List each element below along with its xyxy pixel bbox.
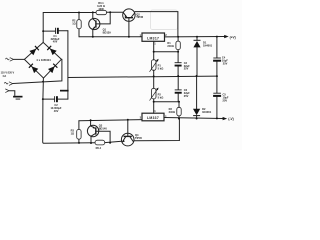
transistor Q4 TIP35 (pass transistor in bottom rail)	[121, 120, 134, 146]
C3 value label	[184, 61, 190, 71]
wire: mid 0V rail	[68, 76, 217, 77]
svg-text:10W: 10W	[98, 7, 104, 11]
op-amp/regulator U1 LM317	[142, 33, 165, 41]
D2 value label	[202, 107, 212, 114]
wire: LM317 ADJ line down to P1 and adj junction wire	[154, 41, 178, 76]
capacitor C6 22uF (adj bypass, bottom)	[175, 76, 182, 102]
op-amp/regulator U2 LM337	[142, 113, 164, 121]
svg-text:5 kΩ: 5 kΩ	[158, 95, 164, 99]
R0.1 value label	[97, 1, 105, 11]
svg-text:TIP36: TIP36	[136, 15, 143, 19]
capacitor C1 2200uF 40V (+ filter)	[43, 28, 68, 34]
svg-text:4 x 1N5404: 4 x 1N5404	[36, 58, 51, 62]
svg-text:40V: 40V	[54, 109, 59, 113]
Q2 reference label	[136, 12, 143, 19]
svg-text:240Ω: 240Ω	[169, 110, 175, 114]
diode D2 1N4001 (across -V output)	[193, 76, 200, 119]
faint scan bleed-through box (decorative)	[151, 10, 178, 30]
svg-text:10µF: 10µF	[222, 58, 228, 62]
wire: -V output line from LM337 pin 2 to output arrow	[164, 118, 223, 119]
transistor Q2 TIP36 (pass transistor in top rail)	[123, 9, 135, 37]
svg-text:CA: CA	[3, 75, 7, 78]
svg-text:LM317: LM317	[147, 36, 159, 40]
capacitor C4 10uF 25V (+ output cap)	[213, 37, 221, 77]
svg-text:25V: 25V	[184, 94, 189, 98]
node: AC input terminal 2	[4, 59, 62, 85]
bridge diode upper-left	[29, 45, 39, 55]
svg-text:(-V): (-V)	[228, 117, 233, 121]
earth ground symbol	[13, 96, 22, 100]
C5 value label	[223, 93, 229, 103]
mains voltage label	[1, 72, 15, 78]
C1 value label	[51, 34, 60, 44]
R3 value label	[71, 128, 75, 135]
wire: +V output line from LM317 pin 2 to output arrow	[165, 36, 225, 38]
P2 value label	[158, 92, 164, 99]
node: earth input terminal	[6, 89, 15, 96]
D1 value label	[203, 41, 213, 48]
C4 value label	[222, 55, 228, 65]
bridge diode upper-right	[47, 45, 57, 55]
junction dots adj node top	[153, 51, 179, 53]
junction dots 0V rail	[153, 75, 218, 78]
svg-text:25V: 25V	[223, 62, 228, 66]
transistor Q1 BD139	[89, 12, 110, 37]
transistor Q3 BD140	[87, 120, 110, 143]
resistor R4 240 ohm (bottom)	[177, 102, 181, 119]
diode D1 1N4001 (across +V output)	[193, 37, 200, 76]
svg-text:LM337: LM337	[147, 116, 159, 120]
Q1 reference label	[103, 28, 112, 35]
svg-text:5 kΩ: 5 kΩ	[158, 67, 164, 71]
wire: bottom negative rail segments	[105, 119, 180, 143]
node: +V output arrow and label	[224, 35, 236, 40]
C6 value label	[184, 88, 190, 98]
svg-text:R0.4: R0.4	[96, 146, 102, 150]
svg-text:1Ω: 1Ω	[71, 131, 75, 135]
bridge diode lower-left	[28, 63, 38, 73]
bridge rectifier B1 diamond	[24, 42, 61, 78]
wire: 0V column from C1 down to C2	[67, 31, 69, 99]
svg-text:25V: 25V	[223, 99, 228, 103]
potentiometer P2 5k (adjust, vertical)	[150, 88, 159, 101]
R4 value label	[169, 107, 175, 114]
resistor R2 1 ohm (vertical, rail to LM317 input wire)	[77, 13, 81, 37]
resistor R0.1 0.22ohm 10W (in top rail)	[96, 10, 107, 14]
svg-text:40V: 40V	[53, 40, 58, 44]
junction dots adj node bottom	[153, 101, 180, 103]
Q4 reference label	[135, 133, 142, 140]
capacitor C3 22uF (adj bypass)	[175, 52, 182, 76]
svg-text:1N4001: 1N4001	[202, 110, 212, 114]
bridge diode lower-right	[48, 63, 58, 73]
R2 value label	[72, 18, 76, 25]
junction dots LM337 input wire	[90, 119, 129, 121]
svg-text:BD140: BD140	[99, 127, 108, 131]
node: AC input terminal 1	[6, 58, 25, 61]
potentiometer P1 5k (adjust, vertical)	[150, 59, 159, 72]
junction dots +V output line	[177, 36, 218, 38]
svg-text:25V: 25V	[184, 67, 189, 71]
resistor R0.4 0.22 ohm (in bottom rail)	[95, 140, 105, 145]
ground bar on 0V column	[60, 90, 69, 92]
capacitor C5 10uF 25V (- output cap)	[213, 76, 221, 118]
R1 value label	[167, 41, 173, 48]
junction dots bottom rail	[78, 142, 111, 144]
junction dots -V output line	[178, 117, 218, 119]
resistor R1 240 ohm	[176, 37, 180, 52]
svg-text:1Ω: 1Ω	[72, 21, 76, 25]
wire: top positive rail from bridge top corner to Q2 and down to +out node	[43, 12, 178, 43]
svg-text:(+V): (+V)	[230, 36, 236, 40]
C2 value label	[50, 103, 61, 113]
svg-text:TIP35: TIP35	[135, 136, 142, 140]
junction dots top rail	[78, 11, 111, 13]
junction dots LM317 input wire	[92, 36, 130, 38]
svg-text:240Ω: 240Ω	[167, 44, 173, 48]
Q3 reference label	[99, 124, 108, 131]
node: -V output arrow and label	[223, 117, 234, 121]
junction dots filter cap taps	[42, 30, 44, 100]
svg-text:BD139: BD139	[103, 31, 112, 35]
wire: LM337 ADJ line up through P2 and adj junction wire	[154, 76, 179, 113]
wire: LM337 input wire	[79, 120, 142, 121]
svg-text:1N4001: 1N4001	[203, 44, 213, 48]
P1 value label	[158, 64, 164, 71]
wire: LM317 input wire (R2 bottom to regulator pin 3)	[79, 36, 142, 38]
wire: negative column from bridge bottom to bottom rail	[43, 78, 95, 143]
resistor R3 1 ohm (vertical, bottom rail to LM337 input wire)	[77, 121, 81, 143]
capacitor C2 10000uF 40V (- filter)	[43, 96, 68, 102]
